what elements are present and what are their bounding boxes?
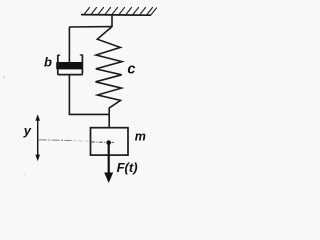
svg-text:c: c (127, 61, 135, 77)
damper b: piston plate (56, 62, 83, 69)
mass m box (91, 128, 129, 155)
equilibrium dash-dot line (left faint segment) (39, 139, 72, 142)
equilibrium dash-dot line (right of dot tick) (112, 141, 115, 143)
svg-text:y: y (23, 123, 32, 138)
node: mass center dot (106, 140, 111, 145)
damper b: cylinder cup (58, 55, 83, 75)
ceiling line (81, 14, 151, 17)
equilibrium dash-dot line (inside mass) (91, 141, 106, 143)
svg-text:b: b (44, 55, 52, 70)
svg-text:m: m (135, 129, 146, 143)
fixed support hatching (84, 8, 157, 15)
damper rod (bottom) (68, 75, 70, 115)
svg-text:F(t): F(t) (117, 160, 138, 175)
equilibrium dash-dot line (middle very faint) (73, 140, 90, 143)
damper piston rod (top) (68, 27, 70, 63)
damper cup rim ticks (58, 54, 60, 56)
wire: top link to damper (69, 26, 112, 28)
wire: bottom link horizontal (69, 113, 110, 115)
wire: ceiling to junction node (111, 15, 113, 27)
wire: spring to mass vertical (108, 108, 110, 129)
force arrow F(t) (108, 143, 110, 174)
scan specks (3, 76, 5, 78)
spring c zigzag (96, 27, 123, 108)
y coordinate arrow (double headed) (37, 119, 39, 157)
